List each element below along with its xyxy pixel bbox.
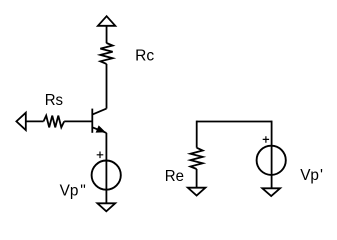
- svg-text:Vp: Vp: [60, 182, 79, 199]
- transistor Q1: [92, 109, 106, 133]
- resistor R1 Rc: [100, 43, 112, 64]
- wire (emitter down through source): [105, 133, 107, 203]
- plus sign V1: [97, 152, 104, 159]
- wire (base): [64, 120, 91, 122]
- svg-text:Rs: Rs: [45, 92, 63, 109]
- wire (VCC stem): [106, 26, 108, 43]
- wire (Vp' branch): [271, 121, 273, 189]
- voltage source V1 Vp": [92, 161, 121, 190]
- wire (Re bottom lead): [196, 169, 198, 188]
- port input (left arrow): [16, 113, 25, 130]
- svg-text:Vp: Vp: [300, 167, 319, 184]
- wire (Re top lead): [196, 121, 198, 148]
- wire (Rc to collector): [106, 64, 108, 109]
- plus sign V2: [263, 136, 269, 143]
- ground (below Re): [188, 188, 206, 196]
- svg-text:Re: Re: [165, 168, 184, 185]
- wire (top of right circuit): [197, 121, 272, 123]
- ground (below V2): [262, 188, 280, 196]
- svg-text:': ': [320, 167, 323, 184]
- svg-text:": ": [80, 182, 86, 199]
- svg-text:Rc: Rc: [135, 48, 154, 65]
- wire (input): [26, 120, 44, 122]
- voltage source V2 Vp': [257, 146, 286, 175]
- resistor R3 Re: [190, 148, 202, 169]
- port VCC (up arrow): [98, 16, 115, 26]
- resistor R2 Rs: [44, 116, 65, 128]
- ground (below V1): [97, 203, 115, 211]
